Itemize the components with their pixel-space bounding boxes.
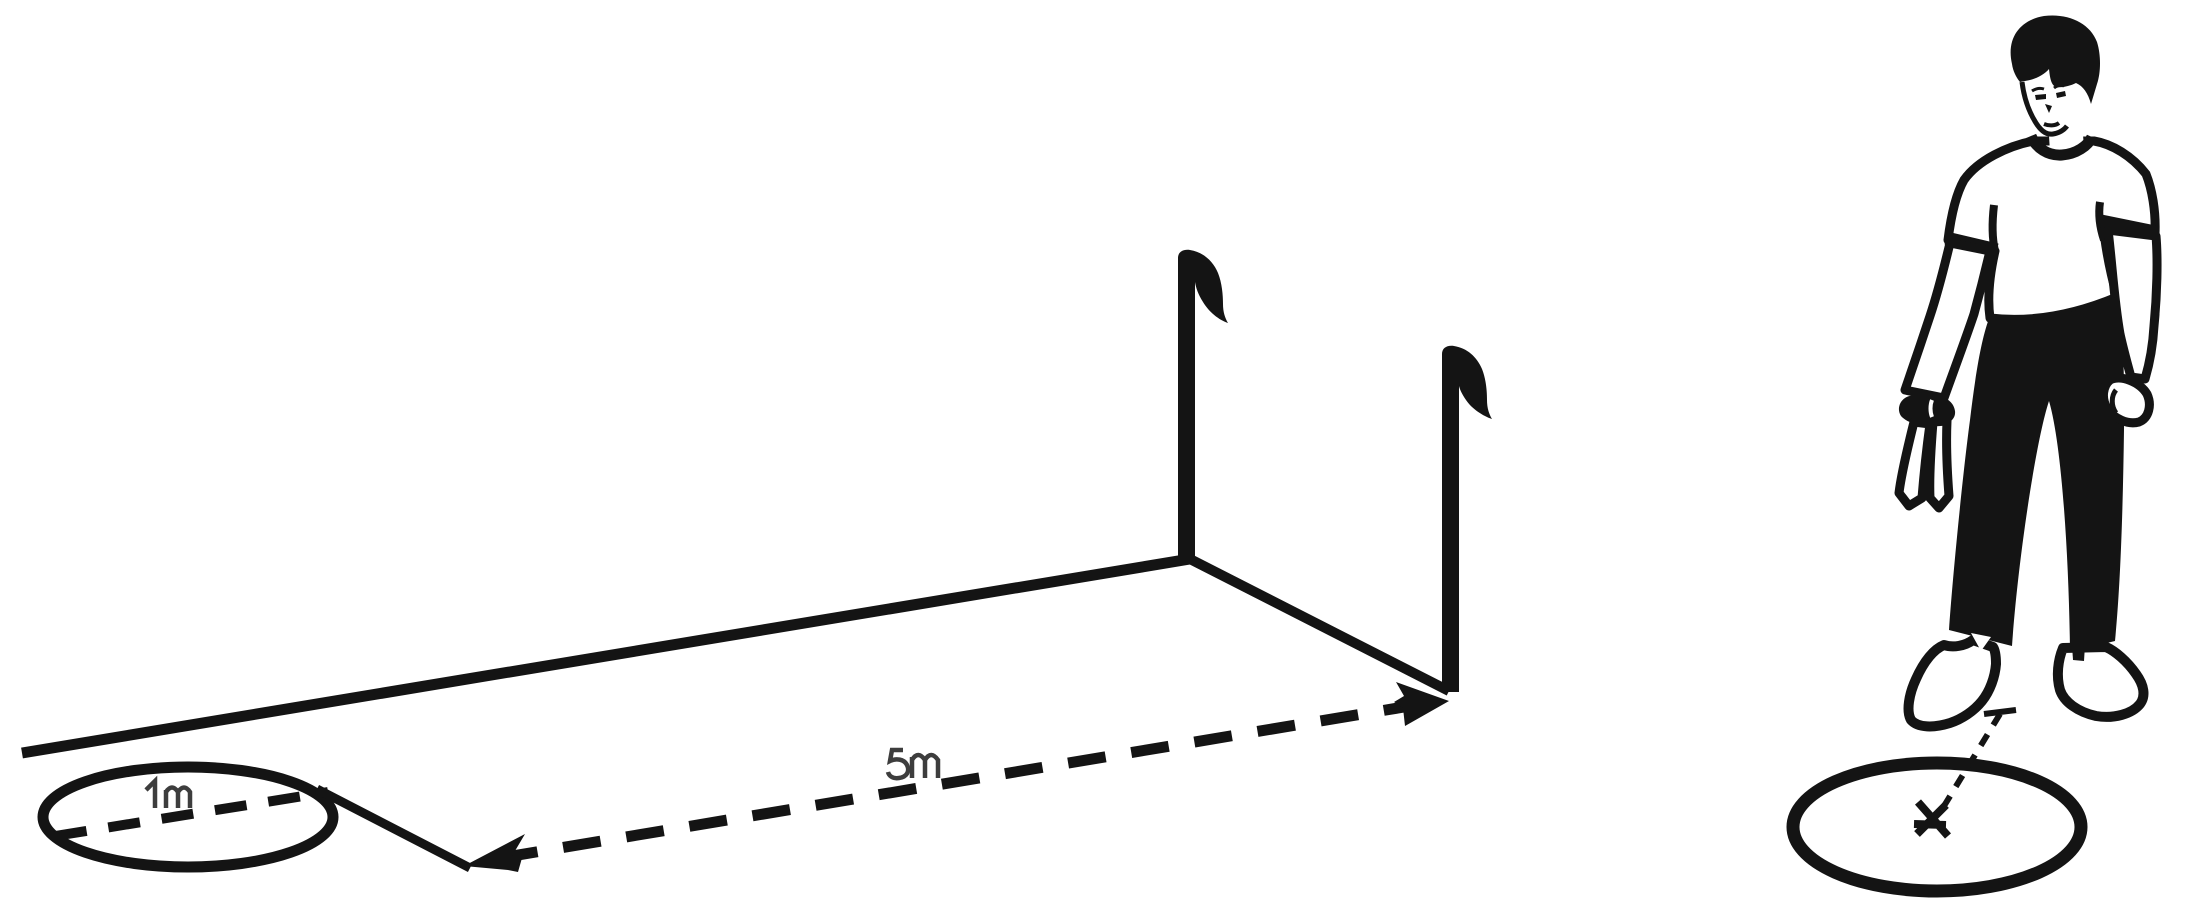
person: left shoe tongue notch xyxy=(1971,633,1991,651)
person: held object strip 2 xyxy=(1930,421,1949,508)
flag post 1 with pennant (left) xyxy=(1178,250,1228,562)
person: shirt xyxy=(1948,141,2155,319)
person: mouth xyxy=(2044,123,2059,125)
target circle (bottom) xyxy=(1793,763,2081,891)
line from circle to 5m arrow xyxy=(317,789,470,868)
person: left eye xyxy=(2035,94,2046,100)
lane front diagonal line xyxy=(1190,559,1449,691)
person: head hair xyxy=(2011,15,2100,104)
X mark at circle center xyxy=(1914,802,1948,836)
person: left armpit seam xyxy=(1993,205,1995,251)
person: collar xyxy=(2031,136,2092,155)
5m dashed double arrow line xyxy=(500,706,1410,858)
person: right fist finger curl xyxy=(2112,390,2116,413)
flag post 2 with pennant (right) xyxy=(1442,346,1492,692)
person: held object strip 1 xyxy=(1899,422,1930,506)
dashed line feet to center (with T top) xyxy=(1984,710,2016,714)
person: left eyebrow xyxy=(2032,88,2044,91)
person: face jaw outline xyxy=(2022,82,2067,134)
person: left fist knuckle notch xyxy=(1931,400,1933,417)
person: right fist xyxy=(2103,378,2149,423)
person: right shoe xyxy=(2058,647,2144,717)
person: right bare arm xyxy=(2108,230,2157,379)
person: right eye xyxy=(2056,91,2066,98)
person: face xyxy=(2020,70,2090,135)
label 5m xyxy=(888,750,938,778)
5m right arrowhead xyxy=(1394,682,1449,726)
person: right sleeve end band xyxy=(2101,221,2155,232)
person: left shoe xyxy=(1909,640,1996,726)
person: nose xyxy=(2045,104,2052,113)
person: left fist knuckle band xyxy=(1899,395,1955,426)
back lane line (long) xyxy=(22,559,1190,753)
start circle (1m ellipse) xyxy=(43,767,333,867)
1m diameter dashed line xyxy=(55,792,328,836)
person: left sleeve end band xyxy=(1946,238,1997,250)
person: right armpit seam xyxy=(2099,202,2104,240)
person: left bare arm xyxy=(1905,243,1990,398)
person: right eyebrow xyxy=(2054,85,2064,88)
5m left arrowhead xyxy=(464,834,525,872)
person: right shoe pants tab xyxy=(2072,645,2085,661)
label 1m xyxy=(146,781,190,808)
person: pants xyxy=(1949,296,2124,652)
person: neck xyxy=(2048,118,2084,152)
